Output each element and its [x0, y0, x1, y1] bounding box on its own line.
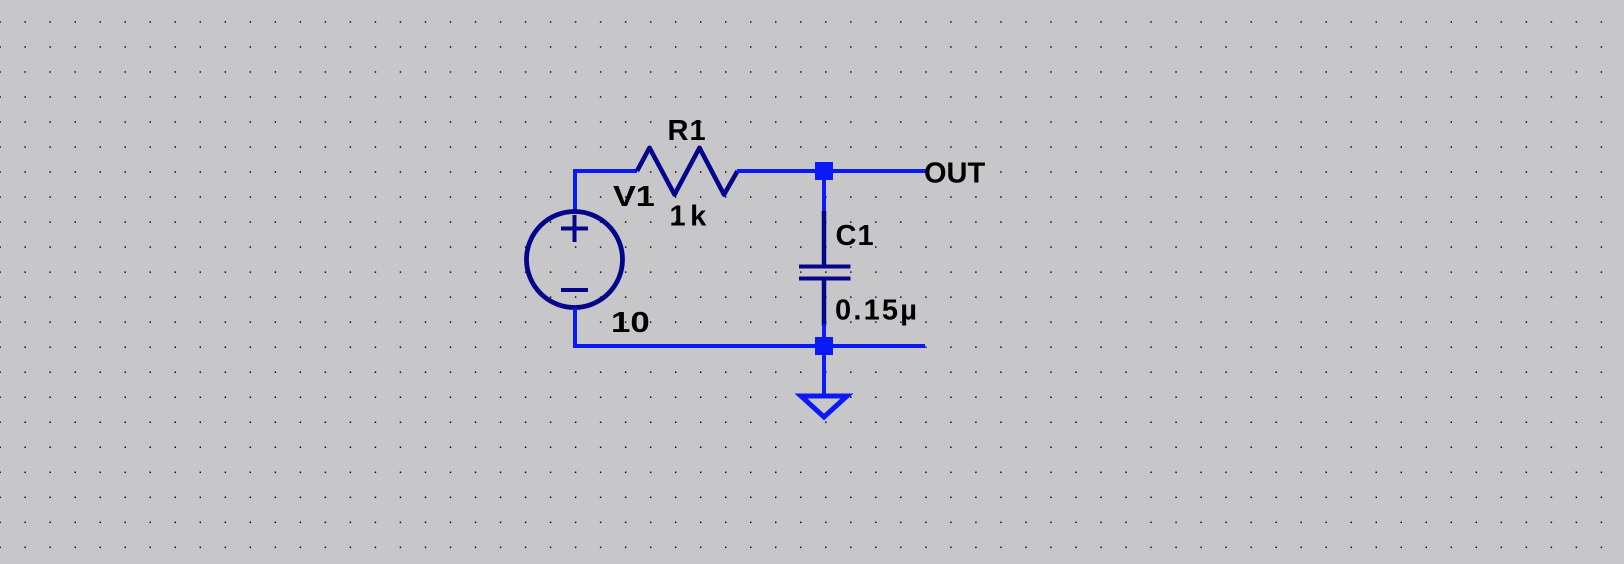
- wire from junction to OUT label: [832, 169, 926, 173]
- wire from V1 top to resistor R1 (left vertical + top horizontal): [575, 171, 637, 212]
- voltage source V1: [527, 212, 623, 308]
- svg-text:1k: 1k: [670, 201, 711, 233]
- junction node at OUT (top): [815, 162, 833, 180]
- svg-text:0.15µ: 0.15µ: [835, 295, 919, 327]
- wire from R1 to node OUT junction: [737, 169, 816, 173]
- svg-text:10: 10: [611, 306, 650, 339]
- wire from V1 bottom along bottom run to junction: [575, 308, 816, 346]
- wire from bottom junction to the right: [832, 344, 925, 348]
- capacitor C1: [799, 211, 851, 326]
- svg-text:R1: R1: [668, 115, 707, 147]
- svg-text:V1: V1: [613, 179, 655, 212]
- svg-text:C1: C1: [836, 220, 875, 252]
- svg-text:OUT: OUT: [924, 158, 986, 190]
- resistor R1: [637, 148, 738, 195]
- wire from junction down to capacitor C1: [822, 180, 826, 213]
- wire stem from junction to ground: [822, 354, 826, 397]
- junction node at bottom: [815, 337, 833, 355]
- ground: [801, 396, 847, 417]
- wire from C1 to bottom junction: [822, 324, 826, 339]
